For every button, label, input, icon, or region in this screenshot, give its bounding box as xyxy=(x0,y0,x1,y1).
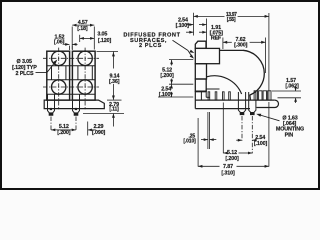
body top cap with chamfer xyxy=(195,41,206,48)
leads row above base (right group, bent lead ends) xyxy=(254,91,257,100)
svg-text:[.36]: [.36] xyxy=(109,79,120,85)
lens circle bottom-left xyxy=(52,80,66,94)
lead pin A below base xyxy=(237,92,239,109)
dimension 5.12 [.200] left xyxy=(169,59,193,61)
horizontal centerline top lens row xyxy=(43,57,99,59)
dimension 4.57 [.18] xyxy=(71,27,73,50)
mounting pin B below base xyxy=(248,92,250,109)
step top line xyxy=(206,88,219,90)
pin 1 centerline xyxy=(50,117,52,131)
pin A centerline xyxy=(241,116,243,141)
base plate side view with rounded right tongue xyxy=(195,99,274,101)
dimension 7.87 [.310] xyxy=(197,118,199,167)
step bottom line xyxy=(206,96,210,98)
svg-text:[.090]: [.090] xyxy=(92,130,106,136)
body block 1 (top lens bezel) xyxy=(195,48,219,63)
middle band lens-tangent rails xyxy=(51,66,53,80)
svg-text:7.87: 7.87 xyxy=(223,164,233,170)
dimension 2.29 [.090] xyxy=(87,122,89,136)
svg-text:REF: REF xyxy=(211,36,222,42)
module 1 housing outline xyxy=(47,51,70,100)
svg-text:[.200]: [.200] xyxy=(225,156,239,162)
back column left edge lower xyxy=(194,91,196,108)
dimension 2.54 [.100] top xyxy=(206,19,208,49)
svg-text:[.010]: [.010] xyxy=(183,138,196,144)
dimension 2.54 [.100] bottom right xyxy=(236,139,242,141)
body block 2 (bottom lens bezel) xyxy=(195,64,206,79)
heavy body bottom line xyxy=(195,90,206,92)
svg-text:[.062]: [.062] xyxy=(285,84,299,90)
svg-text:[.06]: [.06] xyxy=(54,40,65,46)
dimension 5.12 [.200] xyxy=(51,129,76,131)
svg-text:[.100]: [.100] xyxy=(254,141,268,147)
svg-text:[.120]: [.120] xyxy=(98,38,112,44)
lens circle bottom-right xyxy=(78,80,92,94)
dimension 13.97 [.55] xyxy=(193,13,195,36)
svg-text:[.310]: [.310] xyxy=(221,171,235,177)
vertical centerline lens column 2 xyxy=(84,48,86,110)
pin 1 lead xyxy=(47,94,49,108)
divider above bottom lens row xyxy=(47,79,95,81)
dimension .25 [.010] lead thickness xyxy=(207,112,209,149)
back column right edge lower xyxy=(200,91,202,100)
dimension 9.14 [.36] xyxy=(97,50,119,52)
base plate with beveled right end xyxy=(44,100,104,109)
module 2 housing outline xyxy=(72,51,95,100)
lens circle top-left xyxy=(52,51,66,65)
svg-text:3.05: 3.05 xyxy=(97,32,107,38)
leads row above base (left group) xyxy=(208,92,210,100)
svg-text:2 PLCS: 2 PLCS xyxy=(139,43,162,49)
leader to mounting pin xyxy=(260,115,280,121)
pin B centerline xyxy=(251,116,253,153)
svg-text:[.11]: [.11] xyxy=(109,107,119,113)
dimension 5.12 [.200] bottom right figure xyxy=(222,103,224,154)
svg-text:[.200]: [.200] xyxy=(57,130,71,136)
dimension 1.57 [.062] xyxy=(272,90,301,92)
svg-text:[.100]: [.100] xyxy=(159,92,173,98)
dimension 2.54 [.100] left lower xyxy=(158,96,193,98)
vertical centerline lens column 1 xyxy=(58,48,60,110)
leader to front faces xyxy=(173,40,189,50)
body block 3 lower xyxy=(195,79,206,91)
dome lens 1 large arc profile xyxy=(243,50,264,100)
divider under top lens row xyxy=(47,65,95,67)
svg-text:[.18]: [.18] xyxy=(77,26,88,32)
svg-text:PIN: PIN xyxy=(285,132,294,138)
dimension 1.91 [.075] REF xyxy=(186,31,194,33)
horizontal centerline bottom lens row xyxy=(43,86,99,88)
svg-text:2 PLCS: 2 PLCS xyxy=(16,71,35,77)
step vertical xyxy=(205,89,207,97)
dimension 7.62 [.300] xyxy=(222,38,224,50)
dome lens 2 partial arc xyxy=(207,76,242,94)
pin 2 lead xyxy=(72,94,74,108)
svg-text:[.300]: [.300] xyxy=(234,42,248,48)
svg-text:[.55]: [.55] xyxy=(227,17,236,23)
dome lens top flat edge xyxy=(220,49,244,51)
border frame xyxy=(1,1,319,189)
leader to lens circle xyxy=(36,62,56,73)
svg-text:[.100]: [.100] xyxy=(176,23,190,29)
pin 2 centerline xyxy=(75,117,77,131)
base bottom edge xyxy=(195,108,250,110)
dimension 1.52 [.06] xyxy=(68,46,70,50)
dimension 3.05 [.120] xyxy=(79,35,81,42)
divider under bottom lens row xyxy=(47,93,95,95)
lens circle top-right xyxy=(78,51,92,65)
svg-text:[.200]: [.200] xyxy=(160,73,174,79)
dimension 2.79 [.11] xyxy=(83,113,124,115)
